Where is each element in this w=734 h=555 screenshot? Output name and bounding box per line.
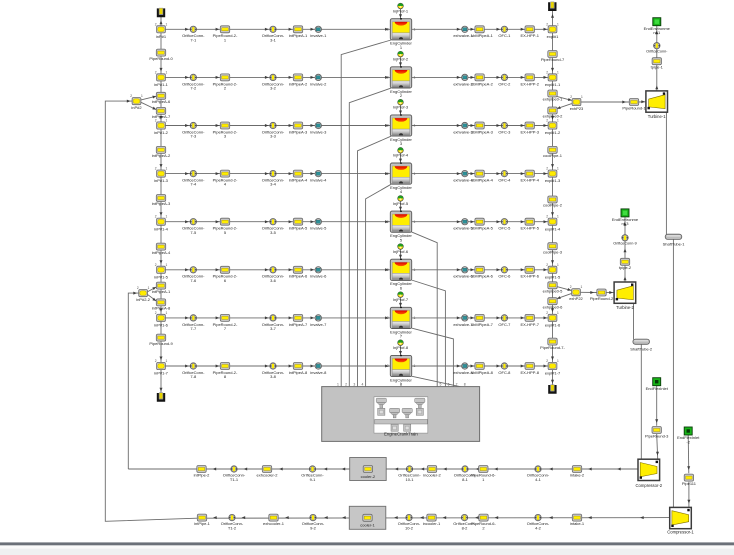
svg-text:OFC-7: OFC-7 — [498, 322, 511, 327]
svg-text:EX-HPP-1: EX-HPP-1 — [520, 33, 539, 38]
svg-text:exhpipe0-6: exhpipe0-6 — [543, 304, 564, 309]
svg-text:inP#2: inP#2 — [131, 105, 142, 110]
svg-text:inP#1-7: inP#1-7 — [154, 371, 169, 376]
svg-text:expl#1-6: expl#1-6 — [545, 323, 561, 328]
svg-text:expl#1-1: expl#1-1 — [545, 82, 561, 87]
svg-text:EX-HPP-8: EX-HPP-8 — [520, 370, 539, 375]
svg-text:1: 1 — [414, 28, 416, 32]
svg-text:intake-2: intake-2 — [570, 473, 585, 478]
svg-text:exhP22: exhP22 — [569, 296, 583, 301]
svg-text:7-4: 7-4 — [190, 182, 197, 187]
svg-text:expl#1: expl#1 — [547, 34, 560, 39]
svg-text:7-8: 7-8 — [190, 374, 197, 379]
svg-text:EX-HPP-6: EX-HPP-6 — [520, 274, 539, 279]
svg-text:cooler-2: cooler-2 — [361, 474, 376, 479]
svg-text:invalve-6: invalve-6 — [310, 274, 327, 279]
svg-text:inP#2-2: inP#2-2 — [136, 297, 151, 302]
svg-text:expl#1-3: expl#1-3 — [545, 178, 561, 183]
svg-text:expl#1-2: expl#1-2 — [545, 130, 561, 135]
svg-text:10-2: 10-2 — [405, 525, 414, 530]
svg-text:incooler-2: incooler-2 — [423, 473, 441, 478]
svg-text:invalve-7: invalve-7 — [310, 322, 327, 327]
svg-text:expl#1-5: expl#1-5 — [545, 274, 561, 279]
svg-text:7: 7 — [456, 382, 458, 386]
svg-text:3-6: 3-6 — [270, 278, 277, 283]
svg-text:EX-HPP-5: EX-HPP-5 — [520, 226, 539, 231]
svg-text:EX-HPP-4: EX-HPP-4 — [520, 178, 539, 183]
svg-text:3-2: 3-2 — [270, 86, 277, 91]
svg-text:intPipeA-7: intPipeA-7 — [289, 322, 308, 327]
svg-text:4-1: 4-1 — [535, 477, 542, 482]
svg-text:intPipeA-3: intPipeA-3 — [152, 201, 171, 206]
svg-text:invalve-1: invalve-1 — [310, 33, 327, 38]
svg-text:intPipeA-8: intPipeA-8 — [152, 306, 171, 311]
svg-text:tpipe-1: tpipe-1 — [651, 65, 664, 70]
svg-text:expl#1-7: expl#1-7 — [545, 371, 561, 376]
svg-text:3-7: 3-7 — [270, 326, 277, 331]
svg-text:PipeRound-3: PipeRound-3 — [645, 434, 669, 439]
svg-text:9-1: 9-1 — [310, 477, 317, 482]
svg-text:3-4: 3-4 — [270, 182, 277, 187]
svg-text:inP#1-6: inP#1-6 — [154, 323, 169, 328]
svg-text:1: 1 — [414, 220, 416, 224]
svg-text:8-1: 8-1 — [462, 477, 469, 482]
svg-text:3-1: 3-1 — [270, 37, 277, 42]
svg-text:InjProf-8: InjProf-8 — [393, 345, 409, 350]
svg-text:exhP23: exhP23 — [570, 106, 584, 111]
svg-text:exhpipe0-2: exhpipe0-2 — [543, 114, 564, 119]
svg-text:sbMPipeA-5: sbMPipeA-5 — [471, 226, 494, 231]
svg-text:3-5: 3-5 — [270, 230, 277, 235]
svg-text:2: 2 — [387, 220, 389, 224]
svg-text:EngineCrankTrain: EngineCrankTrain — [384, 431, 418, 436]
svg-text:OFC-2: OFC-2 — [498, 81, 511, 86]
svg-text:2: 2 — [345, 382, 347, 386]
svg-text:sbMPipeA-1: sbMPipeA-1 — [471, 33, 494, 38]
svg-text:inP#1-4: inP#1-4 — [154, 226, 169, 231]
svg-text:EX-HPP-2: EX-HPP-2 — [520, 81, 539, 86]
svg-text:intPipeA-2: intPipeA-2 — [289, 81, 308, 86]
svg-text:intPipeA-5: intPipeA-5 — [289, 226, 308, 231]
svg-text:Turbine-1: Turbine-1 — [648, 114, 666, 119]
svg-text:1: 1 — [414, 124, 416, 128]
svg-text:ShaftTube-2: ShaftTube-2 — [630, 347, 653, 352]
svg-text:7-5: 7-5 — [190, 230, 197, 235]
svg-text:8: 8 — [464, 382, 466, 386]
svg-text:PipeRound-0: PipeRound-0 — [149, 56, 173, 61]
svg-text:7-3: 7-3 — [190, 134, 197, 139]
svg-text:2: 2 — [387, 76, 389, 80]
svg-text:exhpipe0-1: exhpipe0-1 — [543, 97, 564, 102]
svg-text:coolPipe-1: coolPipe-1 — [543, 153, 563, 158]
svg-text:7-6: 7-6 — [190, 278, 197, 283]
svg-text:OFC-1: OFC-1 — [498, 33, 511, 38]
svg-text:exhpipe0-5: exhpipe0-5 — [543, 289, 564, 294]
svg-text:tpipe-2: tpipe-2 — [619, 265, 632, 270]
svg-text:10-1: 10-1 — [405, 477, 414, 482]
svg-text:EndFlexInlet: EndFlexInlet — [646, 386, 669, 391]
svg-text:incooler-1: incooler-1 — [423, 521, 441, 526]
svg-text:intPipeA-1: intPipeA-1 — [152, 289, 171, 294]
svg-text:3: 3 — [353, 382, 355, 386]
svg-text:intake-1: intake-1 — [570, 521, 585, 526]
svg-text:coolPipe-3: coolPipe-3 — [543, 249, 563, 254]
svg-text:intPipeA-1: intPipeA-1 — [289, 33, 308, 38]
svg-text:sbMPipeA-7: sbMPipeA-7 — [471, 322, 494, 327]
svg-text:OFC-8: OFC-8 — [498, 370, 511, 375]
svg-text:inP#1: inP#1 — [156, 34, 167, 39]
svg-text:inP#1-2: inP#1-2 — [154, 130, 169, 135]
svg-text:exhcooler-1: exhcooler-1 — [263, 521, 285, 526]
svg-text:InjProf-1: InjProf-1 — [393, 8, 409, 13]
svg-text:exhcooler-2: exhcooler-2 — [257, 473, 279, 478]
svg-text:EX-HPP-3: EX-HPP-3 — [520, 129, 539, 134]
svg-text:intPipe-2: intPipe-2 — [194, 473, 211, 478]
svg-text:sbMPipeA-3: sbMPipeA-3 — [471, 129, 494, 134]
svg-text:OFC-3: OFC-3 — [498, 129, 511, 134]
svg-text:2: 2 — [387, 172, 389, 176]
svg-text:9-2: 9-2 — [310, 525, 317, 530]
svg-text:PipeRound-9: PipeRound-9 — [149, 341, 173, 346]
svg-text:invalve-8: invalve-8 — [310, 370, 327, 375]
svg-text:8-2: 8-2 — [462, 525, 469, 530]
svg-text:6: 6 — [448, 382, 450, 386]
svg-text:sbMPipeA-8: sbMPipeA-8 — [471, 370, 494, 375]
svg-text:2: 2 — [387, 124, 389, 128]
svg-text:1: 1 — [414, 76, 416, 80]
svg-text:ShaftTube-1: ShaftTube-1 — [663, 242, 686, 247]
svg-text:2: 2 — [387, 316, 389, 320]
svg-text:inP#1-1: inP#1-1 — [154, 82, 169, 87]
svg-text:intPipeA-4: intPipeA-4 — [289, 178, 308, 183]
svg-text:1: 1 — [414, 172, 416, 176]
svg-text:sbMPipeA-6: sbMPipeA-6 — [471, 274, 494, 279]
svg-text:1: 1 — [414, 364, 416, 368]
svg-text:5: 5 — [439, 382, 441, 386]
svg-text:invalve-2: invalve-2 — [310, 81, 327, 86]
svg-text:T1-1: T1-1 — [230, 477, 239, 482]
svg-text:inP#1-3: inP#1-3 — [154, 178, 169, 183]
svg-text:Pipe111: Pipe111 — [682, 481, 697, 486]
svg-text:EX-HPP-7: EX-HPP-7 — [520, 322, 539, 327]
svg-text:3-8: 3-8 — [270, 374, 277, 379]
svg-text:2: 2 — [387, 28, 389, 32]
svg-text:OFC-4: OFC-4 — [498, 178, 511, 183]
svg-text:PipeRound-7-: PipeRound-7- — [540, 345, 565, 350]
svg-text:sbMPipeA-2: sbMPipeA-2 — [471, 81, 494, 86]
svg-text:PipeRound-7: PipeRound-7 — [541, 57, 565, 62]
svg-text:nt-1: nt-1 — [653, 30, 661, 35]
svg-text:4-2: 4-2 — [535, 525, 542, 530]
svg-text:coolPipe-2: coolPipe-2 — [543, 203, 563, 208]
svg-text:cooler-1: cooler-1 — [360, 523, 375, 528]
svg-text:InjProf-2: InjProf-2 — [393, 57, 409, 62]
svg-text:inP#1-5: inP#1-5 — [154, 274, 169, 279]
svg-text:invalve-5: invalve-5 — [310, 226, 327, 231]
svg-text:7-1: 7-1 — [190, 37, 197, 42]
svg-text:intPipeA-7: intPipeA-7 — [152, 114, 171, 119]
svg-text:intPipeA-2: intPipeA-2 — [152, 153, 171, 158]
svg-text:T1-2: T1-2 — [228, 525, 237, 530]
svg-text:OFC-6: OFC-6 — [498, 274, 511, 279]
svg-text:OrificeConn-: OrificeConn- — [646, 50, 668, 54]
svg-text:Compressor-1: Compressor-1 — [667, 529, 694, 534]
svg-text:invalve-3: invalve-3 — [310, 129, 327, 134]
svg-text:Turbine-2: Turbine-2 — [616, 305, 634, 310]
svg-text:sbMPipeA-4: sbMPipeA-4 — [471, 178, 494, 183]
svg-text:OrificeConn-9: OrificeConn-9 — [613, 242, 636, 246]
svg-text:Compressor-2: Compressor-2 — [636, 483, 663, 488]
svg-text:PipeRound-2: PipeRound-2 — [590, 296, 614, 301]
svg-text:nt-3: nt-3 — [622, 221, 630, 226]
svg-text:7-2: 7-2 — [190, 86, 197, 91]
svg-text:intPipeA-8: intPipeA-8 — [289, 370, 308, 375]
svg-text:intPipeA-3: intPipeA-3 — [289, 129, 308, 134]
svg-text:7-7: 7-7 — [190, 326, 197, 331]
svg-text:PipeRound-1: PipeRound-1 — [622, 106, 646, 111]
svg-text:4: 4 — [361, 382, 363, 386]
svg-text:3-3: 3-3 — [270, 134, 277, 139]
svg-text:intPipe-1: intPipe-1 — [194, 521, 211, 526]
svg-text:InjProf-6: InjProf-6 — [393, 249, 409, 254]
svg-text:1: 1 — [337, 382, 339, 386]
svg-text:2: 2 — [387, 268, 389, 272]
svg-text:OFC-5: OFC-5 — [498, 226, 511, 231]
svg-text:InjProf-4: InjProf-4 — [393, 153, 409, 158]
svg-text:intPipeA-6: intPipeA-6 — [152, 99, 171, 104]
svg-text:intPipeA-6: intPipeA-6 — [289, 274, 308, 279]
svg-text:1: 1 — [414, 268, 416, 272]
svg-text:expl#1-4: expl#1-4 — [545, 226, 561, 231]
svg-text:1: 1 — [414, 316, 416, 320]
svg-text:2: 2 — [387, 364, 389, 368]
svg-text:InjProf-3: InjProf-3 — [393, 105, 409, 110]
svg-text:InjProf-5: InjProf-5 — [393, 201, 409, 206]
svg-text:InjProf-7: InjProf-7 — [393, 297, 409, 302]
svg-text:intPipeA-4: intPipeA-4 — [152, 250, 171, 255]
svg-text:invalve-4: invalve-4 — [310, 178, 327, 183]
